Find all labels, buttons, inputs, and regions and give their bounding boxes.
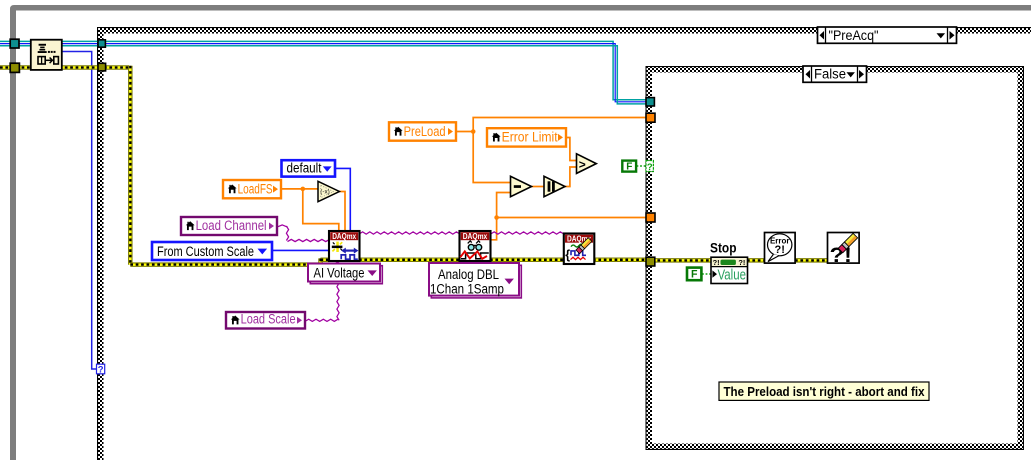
wire negate output (339, 192, 345, 232)
tunnel error on loop (10, 63, 19, 72)
local variable PreLoad (389, 122, 456, 140)
svg-text:default: default (287, 160, 322, 175)
svg-text:>: > (579, 157, 586, 171)
svg-text:Load Scale: Load Scale (241, 312, 296, 327)
wire enum to case selector (62, 52, 96, 370)
VI Clear Errors (828, 233, 860, 267)
wire error cluster inner case (652, 259, 828, 262)
selector AI Voltage (308, 264, 382, 284)
selector Analog DBL 1Chan 1Samp (429, 263, 521, 298)
svg-text:PreLoad: PreLoad (404, 124, 446, 139)
svg-text:F: F (626, 162, 632, 173)
VI Dequeue Element (31, 40, 62, 70)
tunnel read value on inner case (646, 213, 655, 222)
free label warning text (719, 382, 929, 400)
svg-text:(-x): (-x) (320, 189, 330, 196)
negate function (318, 181, 339, 201)
case selector terminal inner (646, 161, 653, 173)
tunnel task on case (98, 40, 105, 47)
case selector label False (803, 66, 867, 82)
svg-text:DAQmx: DAQmx (332, 232, 356, 241)
local variable Load Scale (226, 312, 305, 329)
svg-text:?!: ?! (738, 258, 745, 267)
svg-text:Load Channel: Load Channel (196, 218, 267, 233)
tunnel task on loop (10, 39, 19, 48)
VI DAQmx Create Virtual Channel (329, 231, 360, 261)
tunnel task on inner case (646, 98, 654, 106)
svg-text:F: F (691, 269, 698, 281)
wire abs to greater (565, 167, 577, 187)
VI DAQmx Clear Task (564, 234, 595, 265)
svg-text:Error Limit: Error Limit (502, 130, 558, 145)
local variable Error Limit (487, 128, 566, 146)
greater-than function (577, 154, 597, 174)
VI Simple Error Handler (dialog) (765, 233, 796, 264)
tunnel PreLoad on inner case (646, 113, 655, 122)
case selector label "PreAcq" (818, 27, 957, 43)
property node Stop.Value (711, 257, 748, 283)
subtract function (511, 176, 532, 196)
svg-text:?!: ?! (713, 258, 720, 267)
wire Load Channel (DAQmx name) (277, 225, 330, 242)
svg-text:1Chan 1Samp: 1Chan 1Samp (430, 282, 504, 297)
svg-text:?!: ?! (775, 244, 785, 256)
svg-text:{: { (565, 248, 570, 262)
svg-text:?: ? (98, 365, 104, 376)
svg-text:Stop: Stop (710, 241, 737, 257)
enum constant From Custom Scale (152, 242, 272, 260)
absolute value function (544, 176, 565, 196)
wire subtract to abs (531, 186, 544, 188)
svg-text:LoadFS: LoadFS (238, 181, 273, 196)
wire F to selector terminal (637, 165, 647, 167)
svg-text:Value: Value (718, 267, 747, 283)
case structure False border (646, 66, 1025, 450)
svg-text:The Preload isn't right - abor: The Preload isn't right - abort and fix (724, 384, 926, 399)
wire task read to clear (491, 232, 565, 234)
wire F to Value (702, 273, 711, 275)
wire error cluster left (0, 66, 98, 69)
svg-text:Analog DBL: Analog DBL (438, 267, 499, 282)
wire error cluster middle (359, 258, 646, 261)
wire Load Scale (305, 262, 339, 322)
enum constant default (282, 160, 336, 176)
label Stop (710, 241, 737, 257)
local variable LoadFS (223, 180, 281, 198)
wire PreLoad branches (456, 118, 646, 183)
wire default enum (335, 168, 350, 231)
wire Error Limit to greater (566, 138, 577, 161)
svg-text:AI Voltage: AI Voltage (314, 266, 365, 281)
svg-text:?: ? (647, 162, 653, 173)
svg-text:"PreAcq": "PreAcq" (829, 28, 879, 43)
wire LoadFS to negate and create channel (281, 189, 339, 232)
VI DAQmx Read (460, 231, 491, 261)
svg-text:DAQmx: DAQmx (463, 232, 488, 241)
wire error cluster down case (104, 66, 330, 267)
case selector terminal outer (97, 364, 105, 375)
svg-text:From Custom Scale: From Custom Scale (157, 244, 254, 259)
boolean constant F (selector) (622, 161, 636, 173)
tunnel error on inner case (646, 257, 655, 266)
wire From Custom Scale (272, 249, 330, 251)
wire DAQmx task (teal) (0, 41, 646, 104)
wire task create to read (359, 232, 460, 234)
local variable Load Channel (181, 217, 277, 235)
boolean constant F (value) (687, 268, 701, 281)
svg-text:False: False (814, 67, 846, 82)
tunnel error on case (98, 63, 106, 71)
wire DAQmx read value branches (491, 193, 647, 240)
